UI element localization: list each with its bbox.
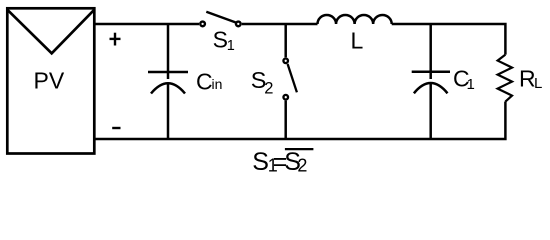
svg-text:PV: PV [34, 68, 65, 94]
svg-text:S: S [213, 27, 228, 53]
svg-text:S: S [252, 148, 269, 176]
svg-text:1: 1 [467, 76, 475, 93]
svg-text:L: L [351, 27, 364, 53]
svg-text:C: C [196, 68, 213, 94]
svg-text:2: 2 [297, 155, 307, 175]
svg-text:L: L [534, 75, 542, 92]
svg-text:1: 1 [227, 38, 235, 54]
svg-text:2: 2 [264, 79, 273, 97]
svg-text:in: in [212, 76, 223, 92]
